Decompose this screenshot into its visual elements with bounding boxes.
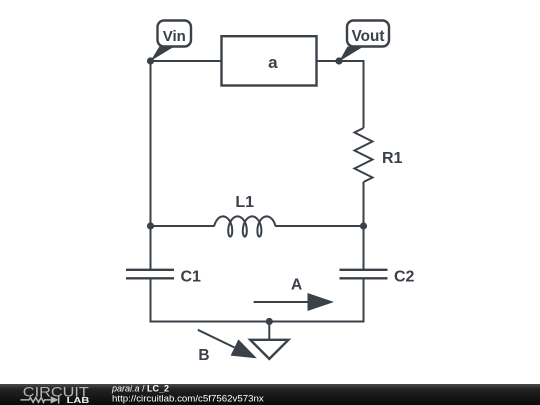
capacitor C1 bbox=[126, 270, 174, 279]
wire L1 right lead bbox=[275, 225, 363, 227]
capacitor C2 bbox=[340, 270, 388, 279]
wire from box a to top-right corner bbox=[317, 60, 364, 62]
wire bottom rail bbox=[150, 321, 365, 323]
svg-text:http://circuitlab.com/c5f7562v: http://circuitlab.com/c5f7562v573nx bbox=[112, 394, 264, 404]
node ground junction dot bbox=[266, 318, 273, 325]
svg-text:C2: C2 bbox=[394, 269, 415, 286]
svg-text:C1: C1 bbox=[181, 269, 202, 286]
wire right vertical L1 node to C2 bbox=[363, 226, 365, 269]
node L1 left junction dot bbox=[147, 222, 154, 229]
flag Vout bubble bbox=[347, 21, 389, 47]
resistor R1 bbox=[355, 128, 373, 182]
wire right vertical from corner down to R1 bbox=[363, 60, 365, 128]
flag Vin bubble bbox=[158, 21, 192, 47]
arrow B bbox=[198, 330, 257, 359]
ground bbox=[250, 322, 288, 359]
arrow A bbox=[254, 293, 334, 311]
svg-text:Vout: Vout bbox=[352, 28, 385, 45]
svg-text:L1: L1 bbox=[235, 194, 254, 211]
wire left vertical from Vin node down to C1 bbox=[150, 61, 152, 269]
svg-text:A: A bbox=[291, 277, 302, 294]
svg-text:LAB: LAB bbox=[67, 396, 90, 405]
footer logo wire with resistor and diode bbox=[20, 396, 58, 404]
node Vin junction dot bbox=[147, 57, 154, 64]
wire right vertical R1 to L1 node bbox=[363, 182, 365, 226]
svg-text:a: a bbox=[268, 53, 278, 72]
inductor L1 bbox=[214, 216, 275, 236]
flag Vout tail bbox=[339, 47, 364, 62]
wire top-left from Vin node to box a bbox=[151, 60, 222, 62]
wire right vertical C2 to bottom rail bbox=[363, 279, 365, 323]
svg-text:B: B bbox=[198, 347, 209, 364]
wire left vertical from C1 to bottom rail bbox=[150, 279, 152, 323]
svg-text:Vin: Vin bbox=[163, 28, 186, 45]
footer bar bbox=[0, 384, 540, 405]
node L1 right junction dot bbox=[360, 222, 367, 229]
flag Vin tail bbox=[151, 46, 177, 62]
svg-text:parai.a / LC_2: parai.a / LC_2 bbox=[111, 384, 169, 394]
wire L1 left lead bbox=[151, 225, 215, 227]
footer logo diode bbox=[51, 396, 59, 403]
box a (gain block) bbox=[222, 36, 317, 85]
node Vout junction dot bbox=[335, 57, 342, 64]
svg-text:R1: R1 bbox=[382, 150, 403, 167]
